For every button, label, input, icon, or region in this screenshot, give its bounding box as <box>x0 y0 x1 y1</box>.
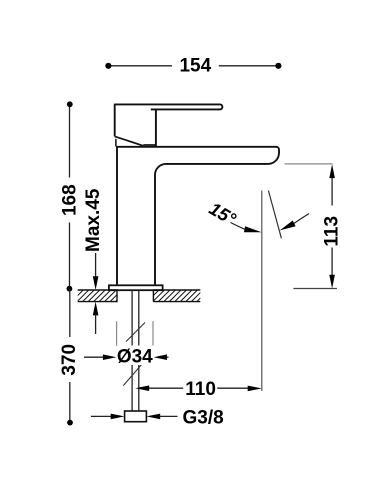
dim 110 arrow right <box>248 386 262 392</box>
faucet cap left small edge <box>115 139 117 147</box>
faucet cartridge vertical <box>155 109 157 146</box>
faucet cap seam <box>143 144 156 146</box>
dim 168 dots <box>67 101 73 107</box>
dim Max.45 line lower <box>95 314 97 334</box>
angle arc arrow <box>294 214 309 224</box>
dim 110 arrow left <box>135 385 149 391</box>
G3/8 connector box <box>125 411 147 422</box>
deck level extension line right <box>293 288 337 290</box>
G3/8 arrow right <box>146 414 160 420</box>
dim 110 line <box>148 387 249 389</box>
dim 113 arrow up <box>329 164 335 178</box>
outlet tilt line 15deg <box>268 191 281 239</box>
countertop left slab <box>66 290 127 302</box>
dim 113 arrow down <box>329 275 335 289</box>
outlet axis reference line <box>261 191 263 392</box>
G3/8 arrow left <box>91 415 112 417</box>
dim 113 line <box>331 177 333 276</box>
svg-text:370: 370 <box>59 344 80 376</box>
dia34 extension line right <box>152 321 154 346</box>
dim Max.45 arrow down <box>93 276 99 290</box>
spout outlet extension line <box>285 163 333 165</box>
dia34 extension line left <box>116 321 118 346</box>
dim Max.45 arrow up <box>93 302 99 316</box>
faucet body and spout outline <box>117 147 279 286</box>
countertop right slab <box>142 290 209 302</box>
dia34 arrow right <box>154 354 167 360</box>
dim 168 line <box>69 104 71 288</box>
supply pipe <box>132 290 139 411</box>
svg-text:154: 154 <box>179 55 211 76</box>
base flange <box>109 285 163 290</box>
svg-text:168: 168 <box>60 184 81 216</box>
dim Max.45 line upper <box>95 253 97 278</box>
faucet handle cap outline <box>115 104 223 136</box>
faucet cap diagonal <box>115 136 144 145</box>
pipe break mark lower <box>123 365 141 386</box>
dim 370 line <box>69 289 71 423</box>
dim 154 line <box>108 65 278 67</box>
dim 154 dots <box>105 63 111 69</box>
svg-text:G3/8: G3/8 <box>183 407 224 428</box>
dia34 text <box>117 346 155 366</box>
dia34 arrow left <box>84 356 105 358</box>
svg-text:110: 110 <box>185 379 216 400</box>
label 15deg leader <box>231 223 245 230</box>
svg-text:Ø34: Ø34 <box>117 346 153 367</box>
pipe break mark upper <box>126 323 145 342</box>
svg-text:113: 113 <box>321 216 342 247</box>
svg-text:Max.45: Max.45 <box>83 188 104 252</box>
dim 370 dot <box>67 420 73 426</box>
